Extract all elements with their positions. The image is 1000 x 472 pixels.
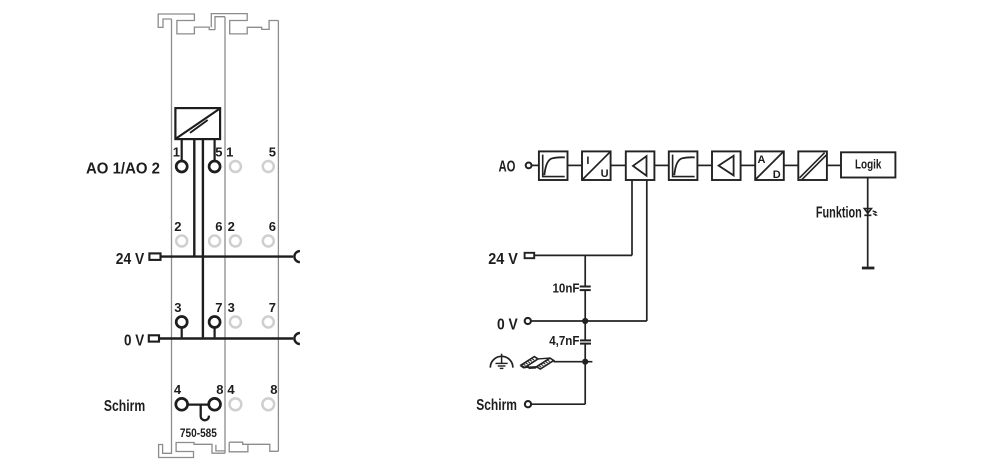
block 5 triangle [719,156,734,176]
wire supply 0V from box [202,139,204,337]
wire logik down to ground [867,178,869,267]
svg-text:5: 5 [269,145,276,160]
24V schematic terminal square [525,253,535,258]
wire rail symbol to earth node [554,361,583,363]
svg-text:24 V: 24 V [488,251,518,268]
block 1 curve [544,157,564,175]
MODULE-NUMBERS [173,145,278,398]
svg-text:I: I [586,155,589,167]
LED D1 triangle [864,209,871,214]
MODULE-BLACK-ART [149,108,300,420]
0V schematic terminal circle [525,318,531,324]
svg-text:7: 7 [269,300,276,315]
svg-text:1: 1 [226,145,233,160]
terminal 3 rear [230,317,241,328]
svg-text:Funktion: Funktion [816,204,862,221]
internal ground bar [862,267,875,270]
block 6 A/D converter box [755,151,784,180]
block 4 axes [673,155,695,177]
svg-text:Schirm: Schirm [476,397,517,414]
svg-text:Logik: Logik [855,156,882,171]
terminal 2 front [176,236,187,247]
module rear bottom foot block [229,442,248,452]
block 3 amplifier box [626,151,655,180]
wire C2 to earth node [584,344,586,405]
svg-text:6: 6 [215,219,222,234]
terminal 8 circle [209,398,221,410]
24V schematic wire [534,254,632,256]
Schirm wire [531,403,585,405]
terminal 8 rear [262,398,274,410]
svg-text:750-585: 750-585 [180,428,218,440]
0V horizontal wire [159,337,293,339]
svg-text:D: D [773,169,781,181]
LED arrow 2 head [875,214,878,217]
wire AO to block 1 [532,164,539,166]
earth node stub wire [585,361,592,363]
RIGHT-LABELS [476,159,862,415]
module front right face [224,17,226,454]
0V schematic wire [531,320,647,322]
rail right flange [537,358,554,369]
wire block2-block3 [611,164,626,166]
svg-text:2: 2 [174,219,181,234]
RIGHT-SCHEMATIC [490,151,895,407]
terminal 4 rear [230,398,242,410]
svg-text:Schirm: Schirm [104,398,145,415]
terminal 4 circle [176,398,188,410]
terminal 7 stem wire [214,328,216,338]
terminal 6 rear [263,236,274,247]
capacitor C1 10nF plate top [580,286,591,288]
functional earth bar 2 [498,365,506,367]
wire pin to terminal 5 [214,139,216,161]
LED arrow 2 [873,214,876,215]
terminal 3 stem wire [181,328,183,338]
block 5 amplifier box [712,151,741,180]
module rear right face [277,21,279,452]
rail left flange end lip [521,366,525,368]
svg-text:1: 1 [173,145,180,160]
shield hook wire [201,405,209,421]
rail left flange [521,357,538,368]
unconnected terminals (light circles) [176,161,274,410]
svg-text:10nF: 10nF [553,281,580,296]
MODULE-OUTLINE-GROUP [158,14,278,458]
module rear left foot [216,445,225,451]
capacitor C1 10nF plate bottom [580,289,591,291]
svg-text:24 V: 24 V [116,251,145,268]
24V horizontal wire [161,255,294,257]
block 3 triangle [633,156,647,176]
DAC box main diagonal [176,109,219,138]
terminal 1 rear [230,161,241,172]
svg-text:4: 4 [174,382,182,397]
block 4 filter box [669,151,698,180]
AO input terminal circle [526,163,532,169]
24V field terminal square [149,253,160,260]
0V field terminal square [149,335,159,341]
DIN-RAIL-SYMBOL [521,357,554,370]
block 7 isolation box [798,151,827,180]
svg-text:A: A [758,154,766,166]
block 2 I/U converter box [582,151,611,180]
0V continuation connector [294,333,299,344]
24V continuation connector [294,251,299,262]
rail left flange hatch [523,358,534,365]
svg-text:4,7nF: 4,7nF [549,333,579,348]
rail right flange hatch [539,360,550,367]
wire block6-block7 [784,164,799,166]
module front top profile [158,14,215,34]
wire block7-logik [827,164,841,166]
functional earth bar 1 [496,362,508,364]
wire block3 pin to 0V rail [646,180,648,321]
block 4 curve [674,157,694,175]
wire 0V node to capacitor C2 [584,321,586,340]
wire 24V to capacitor C1 [584,255,586,286]
rail channel floor dip [528,366,537,369]
LEFT-LABELS [86,160,160,415]
capacitor C2 4,7nF plate top [580,339,591,341]
terminal 5 rear [263,161,274,172]
svg-text:5: 5 [215,145,222,160]
functional earth stem [501,354,503,363]
svg-text:0 V: 0 V [497,316,518,333]
wire block3-block4 [654,164,668,166]
terminal 6 front [209,236,220,247]
block 7 isolation diagonal 2 [802,155,827,180]
block 2 diagonal [583,152,610,179]
terminal 5 circle [209,161,220,172]
module rear bottom profile [229,442,278,451]
svg-text:6: 6 [269,219,276,234]
module rear top profile [211,14,278,34]
wire pin to terminal 1 [181,139,183,161]
svg-text:AO: AO [499,159,516,176]
block 6 diagonal [756,152,783,179]
junction node earth [582,359,588,365]
module rear latch hook [215,17,225,30]
LED arrow 1 [873,211,876,212]
terminal 7 circle [209,317,220,328]
DAC box short diagonal [190,120,208,133]
logic box U2 [841,152,895,177]
terminal 2 rear [230,236,241,247]
functional earth symbol arc [490,356,513,367]
wire block1-block2 [568,164,583,166]
wire block5-block6 [741,164,756,166]
wire block3 pin to 24V rail [631,180,633,255]
block 1 axes [543,155,565,177]
LED D1 cathode bar [864,214,871,216]
svg-text:3: 3 [174,300,181,315]
svg-text:0 V: 0 V [124,333,145,350]
terminal 1 circle [176,161,187,172]
junction node 0V [582,318,588,324]
wire supply 24V from box [193,139,195,255]
terminal 3 circle [176,317,187,328]
block 1 filter box [539,151,568,180]
Schirm terminal circle [525,401,531,407]
wire block4-block5 [697,164,712,166]
block 7 isolation diagonal 1 [800,153,825,178]
functional earth bar 3 [500,367,504,369]
svg-text:U: U [601,168,609,180]
DAC converter box U1 [175,108,220,139]
svg-text:3: 3 [228,300,235,315]
svg-text:8: 8 [270,382,277,397]
shield link wire 4-8 [188,403,209,405]
svg-text:8: 8 [216,382,223,397]
terminal 7 rear [263,317,274,328]
capacitor C2 4,7nF plate bottom [580,343,591,345]
rail web [525,358,550,367]
LED arrow 1 head [874,211,877,214]
module front left face and bottom profile [159,19,225,458]
svg-text:7: 7 [215,300,222,315]
svg-text:AO 1/AO 2: AO 1/AO 2 [86,160,160,177]
svg-text:4: 4 [227,382,235,397]
wire C1 to 0V node [584,290,586,321]
svg-text:2: 2 [228,219,235,234]
BLOCK-TEXTS [586,154,780,181]
